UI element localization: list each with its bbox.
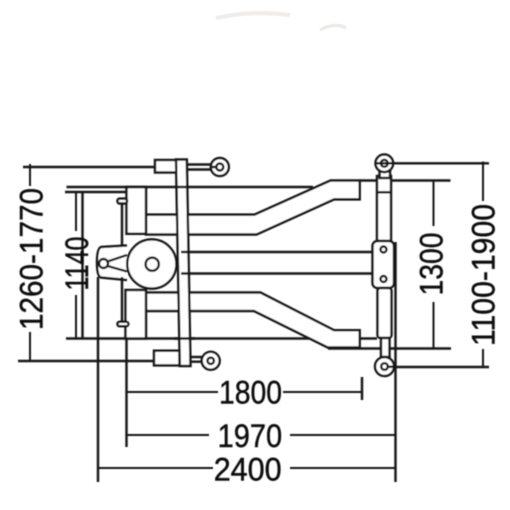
upper arm polygon bbox=[146, 181, 360, 235]
beam second line y=192 (also 1140 top extension) bbox=[65, 191, 126, 193]
small end circle bbox=[99, 259, 108, 268]
lower pad bbox=[126, 290, 147, 339]
upper neck bbox=[380, 171, 390, 178]
svg-text:1800: 1800 bbox=[219, 375, 282, 411]
handle bar upper bbox=[121, 204, 123, 248]
svg-text:1300: 1300 bbox=[414, 233, 450, 296]
lower rod bbox=[378, 288, 392, 338]
svg-text:1140: 1140 bbox=[59, 237, 95, 291]
left cap vertical x=82 bbox=[81, 192, 83, 339]
foot tab bbox=[118, 322, 129, 326]
cone line lower bbox=[108, 266, 128, 272]
upper pad bbox=[127, 187, 147, 234]
faint smudge top center bbox=[216, 13, 290, 18]
ext 1100-1900 top through eye bbox=[376, 162, 490, 164]
top roller wheel bbox=[211, 158, 229, 176]
dim 1800 y=392 bbox=[127, 391, 218, 393]
dim 1260-1770 vertical x=30 bbox=[30, 162, 483, 469]
upper rod joint line bbox=[377, 191, 391, 193]
ext bottom-left (roller axis) y=361 bbox=[18, 360, 165, 362]
ext vertical x=98 (2400 left / motor leg) bbox=[97, 277, 99, 482]
bottom roller wheel bbox=[202, 352, 220, 370]
link bottom eye bbox=[375, 357, 394, 376]
dim 1970 y=435 bbox=[127, 434, 210, 436]
dim 1100-1900 vertical x=483 bbox=[482, 162, 484, 202]
ext 1300 bottom / arm stub y=348.5 bbox=[328, 347, 451, 349]
beam bottom line y=338.5 bbox=[66, 337, 377, 339]
svg-text:2400: 2400 bbox=[214, 452, 282, 488]
ext vertical x=126.5 (1970/1800 left) bbox=[125, 339, 127, 448]
pulley bbox=[127, 239, 176, 288]
pulley hub bbox=[146, 258, 159, 271]
lower neck bbox=[381, 338, 390, 357]
middle plate bbox=[373, 241, 395, 288]
upper tab bbox=[118, 199, 128, 204]
handle bar lower bbox=[121, 277, 123, 322]
svg-text:1970: 1970 bbox=[218, 418, 283, 454]
top roller block bbox=[155, 160, 177, 173]
top roller shaft bbox=[187, 163, 212, 165]
faint smudge top right bbox=[320, 25, 346, 30]
bottom roller shaft bbox=[188, 356, 203, 358]
cone line upper bbox=[108, 255, 128, 262]
boom bottom y=273.5 bbox=[181, 272, 373, 274]
plate hole top bbox=[381, 247, 387, 253]
boom top y=252 bbox=[181, 251, 373, 253]
link top eye bbox=[376, 155, 394, 173]
ext 1300 top y=182.5 bbox=[360, 179, 451, 181]
svg-text:1260-1770: 1260-1770 bbox=[13, 188, 49, 330]
dim 1300 vertical x=432 bbox=[433, 181, 435, 227]
ext top-left (roller axis) y=167 bbox=[23, 166, 160, 168]
ext vertical x=362 (1800 right) bbox=[361, 377, 363, 400]
ext 1100-1900 bottom y=367 bbox=[388, 366, 489, 368]
beam bottom line over post bbox=[174, 337, 195, 339]
svg-text:1100-1900: 1100-1900 bbox=[465, 204, 501, 346]
funnel body bbox=[97, 246, 127, 281]
beam top edge y=186.5 over post bbox=[67, 186, 314, 188]
dim 1140 vertical x=76 bbox=[75, 192, 77, 231]
dim 2400 y=468 bbox=[97, 467, 213, 469]
plate hole bottom bbox=[381, 276, 387, 282]
lower arm polygon bbox=[146, 293, 360, 348]
ext vertical x=395.5 (1970/2400 right) bbox=[394, 242, 396, 482]
bottom roller block bbox=[154, 351, 180, 366]
upper rod bbox=[377, 176, 391, 241]
